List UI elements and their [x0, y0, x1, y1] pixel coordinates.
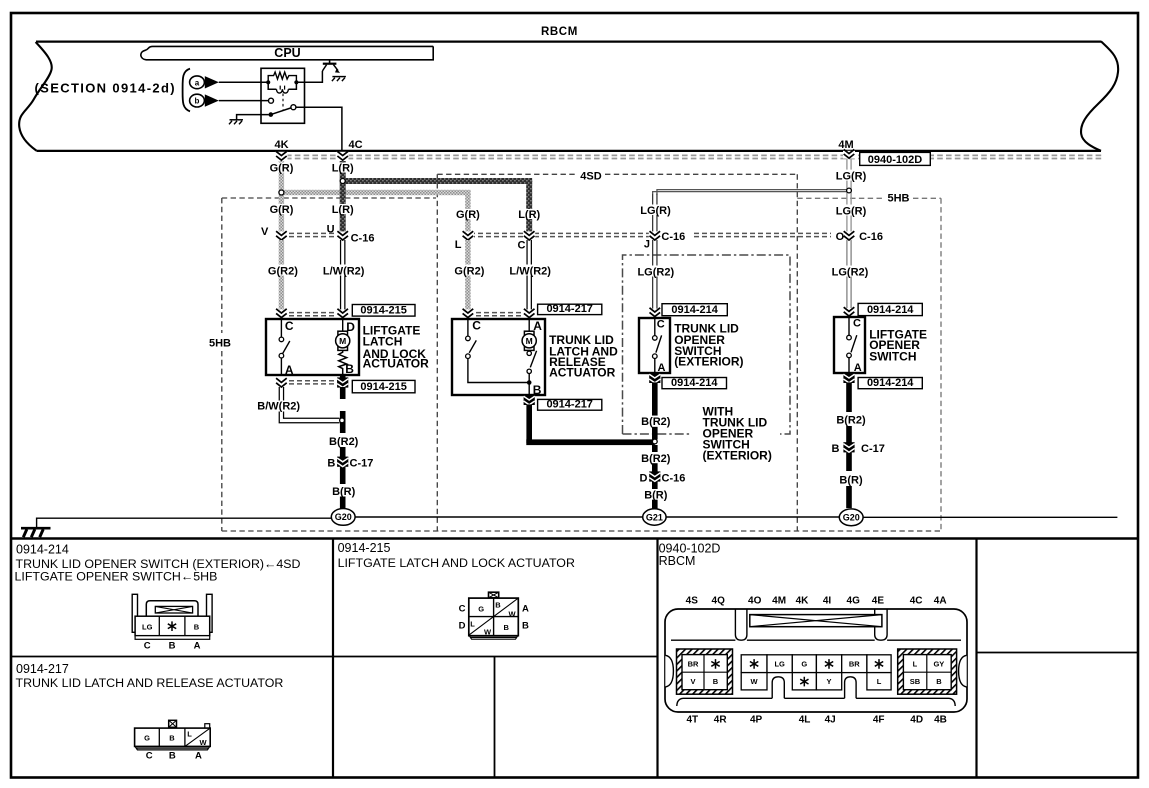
label B(R) b4 — [834, 472, 867, 485]
label box 0914-214 bottom branch4 — [858, 378, 922, 389]
label G(R2) branch1 — [264, 265, 302, 276]
svg-text:0914-214: 0914-214 — [867, 377, 914, 389]
svg-text:M: M — [526, 336, 533, 346]
b2 motor switch contact2 — [527, 369, 531, 373]
connector a arrow — [205, 76, 219, 88]
label B(R2) b1 — [326, 436, 362, 447]
b2 junction dot — [528, 374, 530, 396]
b2 internal link — [468, 358, 529, 382]
svg-text:4E: 4E — [872, 596, 885, 607]
svg-text:L: L — [187, 730, 192, 739]
svg-text:C-16: C-16 — [859, 231, 883, 243]
b2 pin A lead — [528, 319, 530, 331]
svg-text:B: B — [522, 621, 529, 632]
b4 pin C lead — [848, 317, 850, 335]
node circle L — [340, 179, 345, 184]
wire relay out to pin 4C — [296, 107, 342, 152]
0914-214 connector drawing — [132, 594, 212, 651]
svg-text:4J: 4J — [825, 714, 836, 725]
wire L/W(R2) branch1 — [340, 240, 342, 311]
b1 switch contact top — [279, 337, 284, 342]
svg-text:4I: 4I — [823, 596, 832, 607]
wire LG(R) vertical from 4M — [846, 159, 848, 312]
component chevron branch4 — [843, 308, 855, 316]
b2 pin C lead — [467, 319, 469, 336]
label L(R) branch2 — [514, 209, 544, 219]
label LG(R2) branch3 — [633, 266, 678, 277]
svg-text:SWITCH: SWITCH — [869, 350, 916, 364]
pin J chevron — [649, 231, 661, 240]
b3 pin A lead — [654, 358, 656, 373]
label LG(R) row1 right — [830, 170, 870, 181]
b4 pin A lead — [848, 358, 850, 373]
svg-text:G(R): G(R) — [456, 209, 480, 221]
option box with trunk lid opener switch (dash-dot) — [623, 255, 791, 434]
svg-text:C-16: C-16 — [662, 473, 686, 485]
label L(R) row1 — [328, 163, 358, 173]
wire LG(R2) branch4 — [846, 240, 848, 311]
svg-text:L/W(R2): L/W(R2) — [323, 265, 365, 277]
svg-text:(EXTERIOR): (EXTERIOR) — [703, 449, 772, 463]
node circle b2-b3 join — [652, 439, 657, 444]
svg-text:B: B — [495, 600, 501, 609]
svg-text:B(R2): B(R2) — [641, 416, 671, 428]
wire b to relay contact — [219, 100, 269, 102]
svg-text:4SD: 4SD — [580, 171, 601, 183]
b4 bottom chevron — [846, 373, 852, 375]
svg-text:0914-215: 0914-215 — [360, 305, 407, 317]
table column divider x657 — [656, 539, 658, 778]
svg-text:4Q: 4Q — [712, 596, 726, 607]
svg-text:B: B — [169, 751, 176, 762]
table top border — [11, 537, 1138, 540]
svg-text:W: W — [508, 610, 516, 619]
svg-text:B: B — [194, 623, 200, 632]
svg-text:ACTUATOR: ACTUATOR — [363, 357, 430, 371]
svg-text:LG(R): LG(R) — [836, 205, 867, 217]
svg-text:0914-214: 0914-214 — [16, 543, 69, 557]
b2 switch contact top — [466, 336, 471, 341]
harness 4SD boundary box — [437, 173, 578, 175]
pin 4K chevron — [276, 152, 288, 161]
trunk lid opener switch box — [639, 318, 670, 373]
component chevrons branch1 — [281, 312, 343, 314]
b1 pin A lead — [280, 358, 282, 375]
table row divider right — [977, 652, 1139, 654]
b2 motor M — [524, 331, 534, 335]
transistor Q (CPU driver) — [329, 60, 331, 63]
CPU box — [141, 46, 433, 59]
svg-text:J: J — [644, 239, 650, 251]
C-16 mating dashes branch1 — [281, 232, 343, 234]
wire B(R2) b3 — [652, 382, 658, 415]
table column divider x333 — [332, 539, 334, 778]
svg-text:C-16: C-16 — [661, 231, 685, 243]
svg-text:4O: 4O — [748, 596, 762, 607]
label G(R) row2 — [266, 204, 297, 214]
b1 switch contact bottom — [279, 353, 284, 358]
b2 motor switch blade — [530, 351, 536, 368]
svg-text:B: B — [713, 677, 719, 686]
label G(R) branch2 — [452, 209, 483, 219]
svg-text:4D: 4D — [910, 714, 923, 725]
svg-text:4K: 4K — [796, 596, 810, 607]
svg-text:G: G — [801, 660, 807, 669]
svg-text:4B: 4B — [934, 714, 947, 725]
harness 5HB right boundary — [797, 197, 884, 199]
0914-217 connector drawing — [135, 720, 211, 761]
ground G20 b1 — [331, 509, 355, 526]
wire B(R2) b4 — [846, 382, 852, 412]
svg-text:G: G — [478, 605, 484, 614]
b2 bottom chevron — [526, 395, 532, 397]
svg-text:LIFTGATE OPENER SWITCH←5HB: LIFTGATE OPENER SWITCH←5HB — [15, 570, 218, 584]
svg-text:B(R2): B(R2) — [329, 436, 359, 448]
wire B/W(R2) from b1 pin A — [278, 387, 280, 401]
wire L/W(R2) branch2 — [526, 240, 528, 311]
wire LG(R2) branch3 — [652, 240, 654, 311]
b1 bottom chevrons — [281, 380, 343, 382]
main chassis ground symbol — [21, 527, 51, 530]
label L/W(R2) branch2 — [506, 265, 555, 276]
svg-text:B(R2): B(R2) — [641, 453, 671, 465]
pin U chevron — [337, 231, 349, 240]
svg-text:0914-215: 0914-215 — [360, 381, 407, 393]
relay contact b — [269, 98, 274, 103]
ground G20 b4 — [839, 509, 863, 526]
svg-text:5HB: 5HB — [209, 337, 231, 349]
pin 4C chevron — [337, 152, 349, 161]
node circle B/W join — [340, 418, 345, 423]
wire G(R2) branch1 — [279, 240, 284, 311]
relay box — [261, 68, 305, 123]
label B(R2) b4 — [833, 414, 870, 425]
wire L(R) horizontal 4SD feed — [343, 178, 533, 184]
component chevrons branch2 — [468, 312, 529, 314]
svg-text:0940-102D: 0940-102D — [868, 154, 922, 166]
b4 blade — [851, 335, 857, 352]
svg-text:B: B — [345, 362, 354, 376]
label box 0914-217 bottom — [538, 399, 602, 410]
svg-text:(SECTION 0914-2d): (SECTION 0914-2d) — [35, 80, 176, 95]
C-16 mating dashes branch2-3 — [462, 232, 649, 234]
svg-text:B: B — [169, 734, 175, 743]
wire LG(R) horizontal to trunk switch — [653, 190, 847, 195]
svg-text:G(R): G(R) — [270, 204, 294, 216]
table column divider x976 — [975, 539, 977, 778]
label B(R2) b3 upper — [637, 416, 673, 427]
label G(R) row1 — [266, 163, 297, 173]
svg-text:LG(R2): LG(R2) — [637, 266, 674, 278]
svg-text:4G: 4G — [847, 596, 861, 607]
b3 bottom chevron — [652, 373, 658, 375]
svg-text:V: V — [690, 677, 695, 686]
C-16 mating dashes right — [694, 232, 831, 234]
svg-text:C: C — [285, 319, 294, 333]
svg-text:GY: GY — [933, 660, 944, 669]
svg-text:C: C — [518, 239, 526, 251]
node circle G — [279, 190, 284, 195]
svg-text:LG: LG — [142, 623, 153, 632]
pin 4M chevron — [843, 151, 855, 159]
svg-text:4P: 4P — [750, 714, 763, 725]
svg-text:D: D — [346, 320, 355, 334]
svg-text:TRUNK LID LATCH AND RELEASE AC: TRUNK LID LATCH AND RELEASE ACTUATOR — [16, 676, 284, 690]
svg-text:4L: 4L — [799, 714, 811, 725]
svg-text:0914-214: 0914-214 — [671, 304, 718, 316]
svg-text:(EXTERIOR): (EXTERIOR) — [674, 355, 743, 369]
b1 pin C lead — [280, 319, 282, 337]
svg-text:0914-217: 0914-217 — [546, 303, 593, 315]
svg-text:4M: 4M — [772, 596, 786, 607]
svg-text:RBCM: RBCM — [541, 26, 578, 38]
svg-text:V: V — [261, 226, 269, 238]
svg-text:0914-214: 0914-214 — [867, 304, 914, 316]
b3 blade — [656, 335, 662, 352]
svg-text:b: b — [195, 97, 200, 106]
0914-215 connector drawing — [459, 592, 529, 639]
svg-text:4A: 4A — [934, 596, 947, 607]
label LG(R) row2 right — [830, 205, 870, 216]
relay node left — [266, 80, 270, 84]
svg-text:4C: 4C — [910, 596, 923, 607]
svg-text:4T: 4T — [686, 714, 698, 725]
svg-text:G20: G20 — [335, 512, 352, 522]
relay switch common dot — [269, 112, 274, 117]
pin O chevron — [843, 231, 855, 240]
b1 resistor — [339, 351, 347, 376]
svg-text:L/W(R2): L/W(R2) — [509, 265, 551, 277]
b2 motor switch contact1 — [527, 351, 531, 355]
svg-text:B: B — [327, 458, 335, 470]
0940-102D RBCM connector housing — [665, 609, 967, 712]
svg-text:L(R): L(R) — [332, 162, 354, 174]
svg-text:B(R): B(R) — [839, 474, 863, 486]
svg-text:0914-217: 0914-217 — [16, 662, 69, 676]
b3 pin C lead — [654, 318, 656, 336]
label LG(R) branch3 — [636, 205, 676, 216]
svg-text:4M: 4M — [838, 139, 853, 151]
label G(R2) branch2 — [450, 265, 488, 276]
svg-text:RBCM: RBCM — [659, 554, 696, 568]
svg-text:W: W — [751, 677, 759, 686]
svg-text:4F: 4F — [873, 714, 885, 725]
wire relay to transistor — [296, 71, 322, 82]
node G(R) junction — [281, 190, 470, 195]
svg-text:LIFTGATE LATCH AND LOCK ACTUAT: LIFTGATE LATCH AND LOCK ACTUATOR — [338, 556, 575, 570]
liftgate latch and lock actuator box — [266, 319, 359, 375]
svg-text:B(R): B(R) — [644, 489, 668, 501]
svg-text:D: D — [639, 473, 647, 485]
label box 0914-215 bottom — [352, 380, 415, 392]
svg-text:W: W — [484, 627, 492, 636]
svg-text:4C: 4C — [348, 139, 362, 151]
wire relay common to ground — [237, 115, 269, 120]
table row divider left — [11, 656, 658, 658]
ground G21 — [643, 509, 666, 525]
ground at transistor — [332, 76, 346, 78]
harness 5HB left boundary — [222, 197, 436, 199]
connector mating dashes below module — [286, 154, 1104, 156]
svg-text:C-17: C-17 — [350, 458, 374, 470]
svg-text:C-16: C-16 — [351, 232, 375, 244]
svg-text:U: U — [327, 223, 335, 235]
b2 switch contact bottom — [466, 354, 471, 359]
svg-text:L(R): L(R) — [518, 209, 540, 221]
svg-text:Y: Y — [827, 677, 832, 686]
svg-text:A: A — [194, 640, 201, 651]
pin V chevron — [276, 231, 288, 240]
svg-text:B: B — [831, 443, 839, 455]
svg-text:G(R): G(R) — [270, 162, 294, 174]
svg-text:L(R): L(R) — [332, 204, 354, 216]
svg-text:LG: LG — [774, 660, 785, 669]
svg-text:C: C — [657, 319, 665, 331]
svg-text:4R: 4R — [714, 714, 728, 725]
component chevron branch3 — [649, 309, 661, 317]
trunk lid latch and release actuator box — [452, 319, 545, 395]
svg-text:4K: 4K — [274, 139, 288, 151]
b1 motor M — [338, 331, 348, 335]
svg-text:G(R2): G(R2) — [454, 265, 484, 277]
b1 switch blade — [283, 341, 290, 354]
b3 contact top — [653, 336, 658, 341]
svg-text:A: A — [522, 603, 529, 614]
b4 contact top — [847, 335, 852, 340]
svg-text:ACTUATOR: ACTUATOR — [549, 366, 616, 380]
svg-text:0914-215: 0914-215 — [338, 541, 391, 555]
svg-text:L: L — [877, 677, 882, 686]
label L/W(R2) branch1 — [319, 265, 368, 276]
svg-text:LG(R): LG(R) — [640, 205, 671, 217]
svg-text:O: O — [836, 231, 845, 243]
relay switch blade — [271, 108, 291, 115]
relay coil dashed link — [282, 94, 284, 110]
relay coil resistor network — [268, 72, 296, 82]
ground at relay — [230, 119, 244, 121]
node circle LG — [847, 188, 852, 193]
label B(R) b3 — [639, 489, 671, 500]
pin C chevron — [523, 231, 535, 240]
label B(R2) b3 lower — [637, 452, 673, 463]
svg-text:B: B — [936, 677, 942, 686]
svg-text:C: C — [853, 318, 861, 330]
svg-text:SB: SB — [910, 677, 921, 686]
svg-text:C: C — [472, 319, 481, 333]
label box 0940-102D — [860, 152, 931, 165]
label B(R) b1 — [328, 485, 360, 497]
wire a to relay — [219, 81, 268, 83]
svg-text:G(R2): G(R2) — [268, 265, 298, 277]
pin L chevron — [462, 231, 474, 240]
svg-text:BR: BR — [688, 660, 699, 669]
ground rail — [37, 517, 1118, 528]
svg-text:5HB: 5HB — [887, 193, 909, 205]
harness bottom boundary — [222, 530, 941, 532]
svg-text:B: B — [503, 623, 509, 632]
svg-text:4S: 4S — [686, 596, 699, 607]
svg-text:L: L — [470, 619, 475, 628]
svg-text:L: L — [455, 239, 462, 251]
svg-text:L: L — [913, 660, 918, 669]
svg-text:A: A — [285, 363, 294, 377]
RBCM module band outline — [36, 42, 1101, 151]
connector a circle — [190, 76, 205, 89]
svg-text:a: a — [195, 78, 200, 87]
svg-text:0914-214: 0914-214 — [671, 377, 718, 389]
svg-text:G21: G21 — [646, 512, 663, 522]
svg-text:B(R2): B(R2) — [836, 414, 866, 426]
svg-text:CPU: CPU — [274, 46, 300, 60]
wire G(R) vertical from 4K — [279, 161, 284, 234]
wire B(R2) b1 — [340, 375, 346, 380]
svg-text:B/W(R2): B/W(R2) — [257, 401, 300, 413]
svg-text:D: D — [459, 621, 466, 632]
wire B(R2) b2 to junction — [526, 404, 532, 443]
svg-text:B: B — [169, 640, 176, 651]
svg-text:LG(R2): LG(R2) — [832, 266, 869, 278]
relay switch contact out — [291, 105, 296, 110]
label L(R) row2 — [328, 204, 358, 214]
svg-text:M: M — [339, 336, 346, 346]
label box 0914-217 top — [538, 304, 602, 314]
svg-text:C: C — [146, 751, 153, 762]
b4 contact bottom — [847, 353, 852, 358]
relay node right — [294, 80, 298, 84]
svg-text:W: W — [199, 738, 207, 747]
wire G(R2) branch2 — [465, 240, 470, 311]
label box 0914-215 top — [352, 305, 415, 317]
wire L(R) vertical from 4C — [340, 161, 346, 234]
table column divider x495 — [494, 657, 496, 778]
connector b arrow — [205, 94, 219, 106]
svg-text:C: C — [144, 640, 151, 651]
label box 0914-214 top branch4 — [858, 303, 922, 315]
svg-text:G: G — [144, 734, 150, 743]
label box 0914-214 bottom branch3 — [662, 378, 727, 389]
svg-text:A: A — [854, 362, 862, 374]
svg-text:BR: BR — [849, 660, 860, 669]
liftgate opener switch box — [834, 317, 865, 373]
label box 0914-214 top branch3 — [662, 304, 727, 316]
b1 pin D lead — [342, 319, 344, 331]
b3 contact bottom — [653, 354, 658, 359]
svg-text:G20: G20 — [843, 513, 860, 523]
svg-text:B(R): B(R) — [332, 486, 356, 498]
svg-text:A: A — [658, 362, 666, 374]
svg-text:0914-217: 0914-217 — [546, 399, 593, 411]
svg-text:LG(R): LG(R) — [836, 170, 867, 182]
b2 switch blade — [469, 340, 476, 352]
svg-text:B: B — [533, 383, 542, 397]
svg-text:C: C — [459, 603, 466, 614]
svg-text:A: A — [195, 751, 202, 762]
label LG(R2) branch4 — [827, 266, 872, 277]
svg-text:C-17: C-17 — [861, 443, 885, 455]
bracket around a/b — [183, 69, 190, 112]
connector b circle — [190, 94, 205, 107]
